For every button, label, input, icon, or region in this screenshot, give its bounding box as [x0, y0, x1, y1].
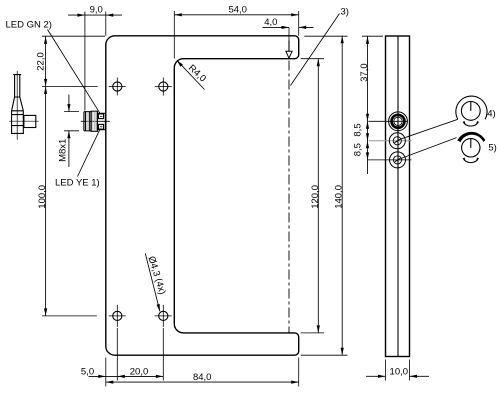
radius label R4,0 with leader: [177, 60, 209, 89]
sensor end circle (side view): [389, 111, 408, 132]
dimension 4,0: [263, 17, 314, 41]
svg-text:LED GN 2): LED GN 2): [6, 20, 52, 31]
svg-text:5,0: 5,0: [81, 367, 94, 378]
mounting hole top-left: [109, 78, 126, 96]
dimension 140,0: [301, 36, 348, 355]
dimension 120,0: [301, 59, 324, 333]
leader to symbol 4: [400, 119, 458, 139]
side view extension row 2 (gray): [369, 140, 412, 142]
label LED YE 1) with leader: [55, 129, 100, 189]
svg-text:22,0: 22,0: [35, 52, 46, 71]
LED green (top): [98, 114, 103, 119]
svg-text:5): 5): [488, 143, 496, 154]
dimension 54,0: [174, 4, 298, 58]
dimension 22,0: [35, 36, 105, 316]
svg-text:37,0: 37,0: [359, 63, 370, 82]
LED yellow (bottom): [98, 124, 103, 129]
potentiometer 1 (side view): [389, 133, 405, 149]
svg-text:20,0: 20,0: [130, 367, 149, 378]
sensor axis line: [81, 120, 110, 122]
dimension 37,0: [359, 36, 383, 174]
dimension 8,5 upper: [353, 121, 370, 141]
svg-text:100,0: 100,0: [37, 185, 48, 209]
dimension 84,0: [106, 358, 299, 387]
label LED GN 2) with leader: [6, 20, 101, 114]
dimension 9,0: [68, 5, 122, 111]
side view middle edge: [397, 36, 399, 357]
svg-text:8,5: 8,5: [353, 123, 364, 136]
adjustment symbol 4): [456, 96, 496, 126]
svg-text:140,0: 140,0: [334, 185, 345, 209]
mounting hole bottom-right: [155, 305, 172, 327]
svg-text:54,0: 54,0: [228, 4, 247, 15]
dimension 8,5 lower: [353, 141, 370, 160]
svg-text:M8x1: M8x1: [58, 139, 69, 162]
svg-text:4,0: 4,0: [264, 17, 277, 28]
note 3) with leader: [291, 6, 349, 85]
svg-text:10,0: 10,0: [390, 366, 409, 377]
svg-text:3): 3): [341, 6, 349, 17]
side view extension row 1: [368, 120, 407, 122]
insertion direction arrow (down) in top arm: [286, 41, 292, 59]
side view extension row 3: [368, 159, 412, 161]
svg-text:84,0: 84,0: [193, 372, 212, 383]
centerline (dash-dot) in notch: [288, 61, 290, 333]
side view body: [386, 36, 410, 357]
mounting hole top-right: [155, 78, 172, 96]
hole diameter label with leader: [145, 253, 167, 311]
dimension M8x1: [58, 95, 80, 168]
sensor barrel: [84, 112, 91, 131]
dimension 10,0: [366, 360, 429, 381]
dimension 5,0: [81, 328, 163, 387]
svg-text:120,0: 120,0: [310, 185, 321, 209]
adjustment symbol 5): [457, 132, 497, 163]
dimension 100,0: [37, 86, 97, 316]
svg-text:4): 4): [487, 109, 495, 120]
svg-text:9,0: 9,0: [90, 5, 103, 16]
dimension 20,0: [130, 328, 164, 381]
cable connector (left): [9, 71, 38, 140]
potentiometer 2 (side view): [390, 152, 406, 168]
mounting hole bottom-left: [109, 305, 126, 327]
leader to symbol 5: [401, 138, 457, 159]
svg-text:8,5: 8,5: [353, 143, 364, 156]
sensor nut: [91, 111, 97, 131]
plate outline (front view, C-shaped bracket): [106, 36, 299, 355]
sensor LED block: [97, 113, 105, 129]
svg-text:LED YE 1): LED YE 1): [55, 178, 100, 189]
